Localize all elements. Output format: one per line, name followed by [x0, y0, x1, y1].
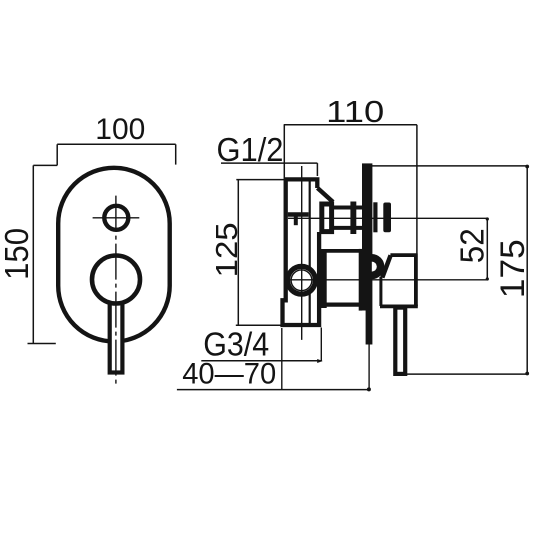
front view: small-circle horizontal crosshair	[93, 217, 140, 219]
side view: cartridge flange bar	[321, 249, 327, 308]
side view: outlet pipe horizontal centerline	[288, 217, 487, 219]
dimension 40-70: end tick	[367, 387, 371, 391]
dimension 110: left extension	[283, 125, 285, 178]
front view: escutcheon oval plate	[58, 168, 170, 342]
dimension 175: dimension line	[526, 166, 528, 374]
svg-text:G1/2: G1/2	[217, 131, 284, 168]
dimension 110: right extension	[416, 125, 418, 254]
dimension 125: dimension line	[237, 180, 239, 325]
front view: vertical centerline	[115, 196, 117, 386]
svg-text:52: 52	[454, 228, 491, 263]
dimension 175: top extension	[369, 165, 527, 167]
side view: cartridge rear bar at plate	[359, 249, 363, 311]
front view: handle boss circle	[92, 256, 140, 304]
side view: handle hub right edge	[414, 254, 418, 307]
side view: outlet flange	[322, 204, 332, 232]
svg-text:175: 175	[494, 239, 532, 298]
dimension 40-70: right extension (plate line)	[368, 345, 370, 390]
dimension 150: top extension	[33, 164, 57, 166]
side view: cartridge horizontal centerline	[284, 279, 487, 281]
side view: outlet pipe top edge	[334, 206, 362, 210]
dimension 40-70: dimension line	[177, 389, 369, 391]
dimension 150: dimension line	[32, 165, 34, 343]
side view: inlet boss thread circle	[291, 270, 312, 291]
dimension 100: dimension line	[57, 143, 176, 145]
dimension 40-70: left extension	[281, 328, 283, 390]
label G3/4 leader line	[201, 360, 322, 362]
svg-text:150: 150	[0, 228, 35, 280]
side view: outlet thread tail left bar	[373, 202, 377, 232]
label G1/2 leader line	[221, 162, 317, 164]
side view: handle hub lower-left edge	[379, 277, 382, 306]
svg-text:100: 100	[95, 113, 145, 146]
side view: internal port tee mark	[288, 212, 309, 217]
dimension 125: bottom extension	[236, 324, 283, 326]
side view: outlet thread tail cap	[383, 203, 391, 233]
svg-text:125: 125	[209, 222, 244, 277]
label G3/4 leader end tick	[317, 359, 323, 363]
dimension 150: bottom extension	[28, 343, 56, 345]
label G3/4 leader vertical to body corner	[320, 328, 322, 361]
svg-text:110: 110	[326, 94, 384, 129]
front view: diverter button circle	[104, 206, 128, 230]
dimension 125: top extension	[236, 179, 285, 181]
side view: wall plate edge (lower)	[366, 311, 373, 345]
side view: handle hub top edge	[390, 253, 417, 257]
dimension 100: left extension	[56, 144, 58, 165]
side view: chamfer to outlet flange	[318, 188, 334, 202]
dimension 52: dimension line	[486, 218, 488, 279]
front view: lever handle (front)	[110, 300, 123, 373]
dimension 110: dimension line	[284, 124, 417, 126]
side view: locknut bar	[350, 202, 356, 235]
dimension 175: bottom extension	[406, 373, 527, 375]
svg-text:40—70: 40—70	[182, 358, 276, 391]
side view: cartridge housing bottom edge	[321, 303, 363, 307]
side view: handle hub bottom edge	[380, 304, 418, 308]
side view: inlet vertical centerline	[301, 166, 303, 340]
dimension 175: corner dots	[525, 165, 529, 169]
side view: lever handle (side)	[395, 308, 405, 374]
side view: wall plate edge (upper)	[362, 163, 372, 310]
side view: inlet boss outer circle G3/4	[288, 266, 316, 294]
side view: cartridge housing top edge	[321, 249, 363, 253]
side view: handle hub front diagonal	[382, 255, 390, 277]
side view: outlet pipe bottom edge	[334, 226, 362, 230]
side view: hub boss bump on plate	[372, 254, 385, 279]
side view: body inner vertical line	[309, 181, 311, 323]
dimension 100: right extension	[175, 144, 177, 164]
side view: valve body outline	[283, 179, 320, 325]
